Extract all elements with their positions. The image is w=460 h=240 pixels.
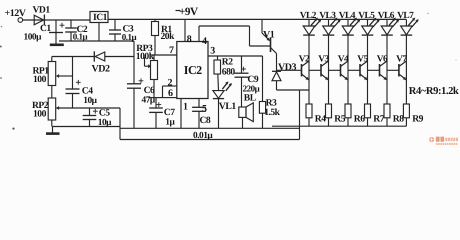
svg-text:V1: V1 bbox=[263, 29, 275, 40]
svg-text:R4~R9:1.2k: R4~R9:1.2k bbox=[409, 86, 459, 97]
svg-text:100: 100 bbox=[33, 108, 47, 119]
svg-text:C1: C1 bbox=[40, 23, 51, 34]
svg-text:VL2: VL2 bbox=[300, 11, 317, 21]
svg-text:BL: BL bbox=[244, 92, 256, 103]
svg-text:3: 3 bbox=[210, 46, 215, 57]
svg-text:IC1: IC1 bbox=[93, 12, 108, 23]
svg-text:8: 8 bbox=[187, 34, 192, 45]
svg-text:C6: C6 bbox=[144, 85, 155, 96]
svg-text:0.1μ: 0.1μ bbox=[122, 32, 137, 42]
svg-text:R9: R9 bbox=[412, 114, 423, 125]
svg-text:VD3: VD3 bbox=[278, 62, 296, 73]
svg-text:100: 100 bbox=[33, 74, 47, 85]
svg-text:C8: C8 bbox=[200, 115, 211, 126]
svg-text:V2: V2 bbox=[299, 55, 310, 65]
svg-text:VL3: VL3 bbox=[319, 11, 336, 21]
svg-text:1: 1 bbox=[183, 102, 188, 113]
svg-text:VL7: VL7 bbox=[397, 11, 414, 21]
svg-text:V7: V7 bbox=[396, 55, 407, 65]
svg-text:V5: V5 bbox=[357, 55, 368, 65]
svg-text:10μ: 10μ bbox=[98, 118, 112, 128]
svg-text:R4: R4 bbox=[315, 114, 326, 125]
svg-text:V6: V6 bbox=[377, 55, 388, 65]
svg-text:1μ: 1μ bbox=[165, 117, 175, 127]
svg-text:4: 4 bbox=[202, 36, 207, 47]
svg-text:R7: R7 bbox=[373, 114, 384, 125]
svg-text:100μ: 100μ bbox=[24, 33, 43, 43]
svg-text:IC2: IC2 bbox=[184, 63, 202, 77]
svg-text:+12V: +12V bbox=[5, 8, 27, 19]
svg-text:R8: R8 bbox=[393, 114, 404, 125]
svg-text:VD2: VD2 bbox=[92, 63, 110, 74]
svg-text:V4: V4 bbox=[338, 55, 349, 65]
svg-text:47μ: 47μ bbox=[142, 96, 156, 106]
svg-text:V3: V3 bbox=[318, 55, 329, 65]
svg-text:VL4: VL4 bbox=[339, 11, 356, 21]
svg-text:2: 2 bbox=[168, 77, 173, 88]
svg-text:7: 7 bbox=[169, 45, 174, 56]
svg-text:5: 5 bbox=[202, 103, 207, 114]
svg-text:6: 6 bbox=[168, 88, 173, 99]
svg-text:+9V: +9V bbox=[179, 6, 198, 18]
svg-text:R5: R5 bbox=[334, 114, 345, 125]
svg-text:VL5: VL5 bbox=[358, 11, 375, 21]
svg-text:20k: 20k bbox=[161, 31, 176, 42]
svg-text:10μ: 10μ bbox=[83, 96, 97, 106]
svg-text:R6: R6 bbox=[354, 114, 365, 125]
svg-text:100k: 100k bbox=[136, 51, 155, 62]
svg-text:VL1: VL1 bbox=[219, 101, 237, 112]
svg-text:VL6: VL6 bbox=[378, 11, 395, 21]
svg-text:680: 680 bbox=[222, 66, 236, 77]
svg-text:1.5k: 1.5k bbox=[264, 107, 280, 118]
svg-text:VD1: VD1 bbox=[33, 4, 51, 15]
svg-text:0.1μ: 0.1μ bbox=[73, 32, 88, 42]
